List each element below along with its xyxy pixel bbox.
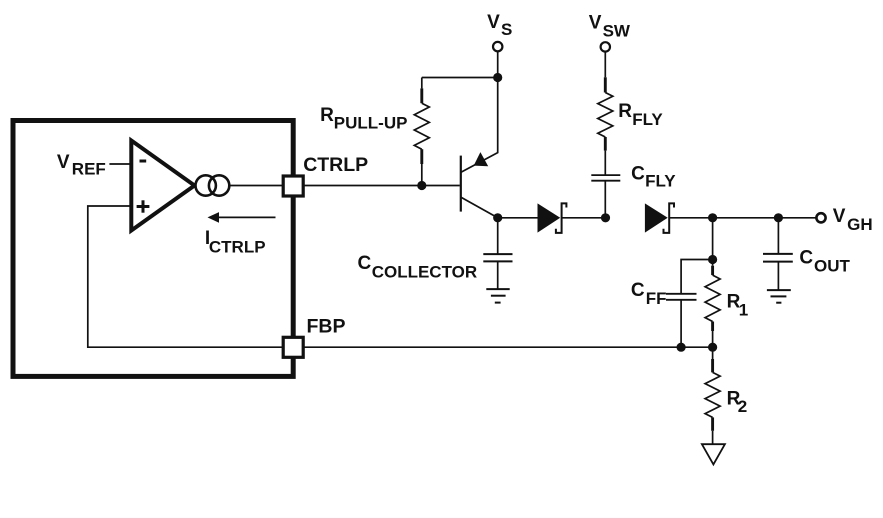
- wire VS to junction: [497, 52, 499, 78]
- ground arrow for R2: [702, 444, 725, 464]
- svg-text:GH: GH: [847, 215, 873, 234]
- ground for CCOLLECTOR: [486, 289, 509, 303]
- resistor R1: [705, 260, 720, 348]
- wire to VGH terminal: [778, 217, 820, 219]
- label ICTRLP: [205, 228, 266, 257]
- node COUT junction: [774, 213, 783, 222]
- capacitor CFLY: [591, 151, 620, 218]
- label CCOLLECTOR: [358, 253, 478, 281]
- capacitor CCOLLECTOR: [483, 218, 512, 289]
- label R1: [727, 291, 749, 319]
- diode D1 (schottky): [538, 203, 567, 233]
- label RPULL-UP: [320, 105, 407, 133]
- wire to COUT node: [713, 217, 779, 219]
- node pullup-base junction: [417, 181, 426, 190]
- svg-text:V: V: [589, 13, 602, 34]
- op-amp minus sign: [140, 160, 147, 163]
- diode D2 (schottky): [645, 203, 674, 233]
- svg-text:CTRLP: CTRLP: [303, 154, 368, 176]
- svg-text:S: S: [501, 20, 512, 39]
- current source I1: [196, 175, 230, 195]
- label R2: [727, 389, 748, 416]
- svg-text:V: V: [57, 152, 70, 173]
- svg-text:C: C: [799, 247, 813, 268]
- svg-text:C: C: [358, 253, 372, 274]
- pin CTRLP square: [283, 176, 303, 196]
- resistor R2: [705, 347, 720, 444]
- capacitor COUT: [763, 218, 793, 290]
- resistor RFLY: [598, 52, 613, 151]
- capacitor CFF: [666, 294, 697, 347]
- svg-text:SW: SW: [603, 21, 631, 40]
- node R1 bottom junction: [708, 343, 717, 352]
- transistor Q1: [461, 78, 498, 218]
- wire D2 to R1 node: [669, 217, 712, 219]
- label RFLY: [618, 101, 663, 129]
- svg-text:V: V: [487, 12, 500, 33]
- node R1 top junction: [708, 213, 717, 222]
- svg-text:OUT: OUT: [814, 257, 851, 276]
- svg-text:V: V: [833, 206, 846, 227]
- label COUT: [799, 247, 850, 275]
- wire FBP rail: [304, 346, 712, 348]
- label CFLY: [631, 163, 676, 190]
- node collector junction: [493, 213, 502, 222]
- svg-text:FBP: FBP: [307, 315, 346, 337]
- svg-text:FLY: FLY: [645, 172, 676, 191]
- node VS junction: [493, 73, 502, 82]
- svg-text:C: C: [631, 163, 645, 184]
- terminal VSW: [601, 42, 610, 51]
- wire feedback from non-inverting input to FBP: [88, 206, 282, 347]
- op-amp U1: [131, 141, 194, 231]
- op-amp plus sign: [137, 200, 150, 212]
- svg-text:R: R: [618, 101, 632, 122]
- svg-text:R: R: [320, 105, 334, 126]
- svg-text:PULL-UP: PULL-UP: [334, 113, 408, 132]
- svg-text:CTRLP: CTRLP: [209, 238, 266, 257]
- arrow ICTRLP: [208, 212, 276, 223]
- terminal VS: [493, 42, 502, 51]
- svg-text:1: 1: [739, 301, 748, 320]
- label VREF: [57, 152, 106, 178]
- label VSW: [589, 13, 631, 41]
- node CFF bottom junction: [677, 343, 686, 352]
- wire current source to CTRLP pin: [229, 185, 282, 187]
- node CFLY junction: [601, 213, 610, 222]
- node CFF/R1 junction: [708, 255, 717, 264]
- wire CTRLP to transistor base: [304, 185, 460, 187]
- svg-text:C: C: [631, 280, 645, 301]
- svg-text:2: 2: [738, 397, 747, 416]
- pin FBP square: [283, 337, 303, 357]
- wire down to CFF/R1: [712, 218, 714, 260]
- terminal VGH: [816, 213, 825, 222]
- svg-text:FF: FF: [646, 289, 667, 308]
- IC block box: [13, 121, 293, 377]
- svg-text:COLLECTOR: COLLECTOR: [372, 262, 477, 281]
- resistor RPULL-UP: [414, 78, 429, 186]
- ground for COUT: [767, 290, 791, 303]
- wire top rail VS to RPULL-UP: [422, 77, 498, 79]
- wire CFF branch top: [681, 260, 713, 294]
- svg-text:REF: REF: [72, 159, 106, 178]
- wire D1 to node: [562, 217, 606, 219]
- svg-text:FLY: FLY: [632, 110, 663, 129]
- label VGH: [833, 206, 873, 234]
- wire VREF to inverting input: [109, 163, 131, 165]
- label CFF: [631, 280, 667, 308]
- label VS: [487, 12, 512, 39]
- wire collector to diode D1: [498, 217, 538, 219]
